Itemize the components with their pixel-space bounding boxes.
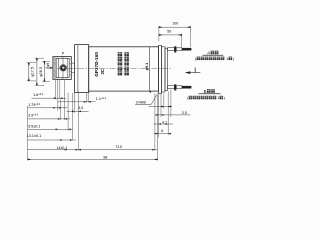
connector pin block	[53, 64, 55, 67]
svg-text:1.6+0.1: 1.6+0.1	[33, 92, 44, 97]
connector block vertical center line	[62, 57, 64, 80]
left flange inner line	[77, 45, 79, 93]
2xM8 leader underline	[135, 103, 151, 105]
svg-text:50: 50	[167, 29, 171, 33]
right section C	[165, 48, 168, 90]
top stud thread	[182, 48, 192, 51]
svg-text:2×M8: 2×M8	[136, 99, 147, 104]
svg-text:3.9+0.1: 3.9+0.1	[28, 113, 39, 118]
svg-text:): )	[233, 56, 235, 61]
centerline	[47, 67, 172, 69]
dim 30 line	[159, 26, 191, 28]
bottom stud shaft2	[176, 86, 182, 89]
right section B	[161, 47, 165, 92]
stem between block and flange	[71, 62, 74, 64]
left dia dim line 1	[28, 63, 30, 81]
port circle ring	[61, 66, 65, 70]
top stud shaft	[168, 48, 175, 51]
svg-text:3.5: 3.5	[182, 111, 187, 115]
bottom stud shaft	[168, 86, 175, 89]
port circle outer	[60, 65, 67, 72]
svg-text:98: 98	[103, 156, 107, 160]
2xM8 leader diagonal	[151, 95, 157, 105]
A coil paren note	[195, 56, 235, 61]
svg-text:φ9.1: φ9.1	[145, 63, 149, 71]
svg-text:100: 100	[172, 22, 178, 26]
top stud shaft2	[176, 48, 182, 51]
right chain dim row1	[149, 106, 173, 108]
A coil label	[207, 50, 218, 55]
bottom stud thread	[182, 86, 192, 89]
svg-text:3.5: 3.5	[78, 106, 83, 110]
svg-text:φ9: φ9	[46, 63, 50, 67]
right chain dim row2 3.5	[155, 114, 190, 116]
svg-text:GP37D-160: GP37D-160	[94, 52, 99, 77]
body inner right line	[148, 47, 150, 91]
direction arrow tick	[194, 68, 196, 73]
connector block left strip	[54, 57, 56, 80]
connector block inner	[56, 58, 69, 77]
svg-text:φ26.5: φ26.5	[39, 67, 43, 77]
svg-text:73.5: 73.5	[115, 145, 122, 149]
left dia dim line 3	[43, 61, 45, 81]
svg-text:P: P	[62, 52, 65, 56]
svg-text:9.5±0.1: 9.5±0.1	[28, 124, 40, 128]
bottom stud washer	[174, 84, 176, 90]
connector block outer	[53, 57, 71, 80]
svg-text:4.7: 4.7	[162, 121, 167, 125]
connector block left strip shading	[53, 57, 56, 79]
pointer arrow to block left face	[45, 67, 53, 69]
small dim 1.6 line	[32, 97, 67, 99]
right chain dim row3 4.7	[154, 123, 174, 125]
A coil underline	[203, 54, 224, 56]
left flange	[75, 45, 89, 93]
B coil paren note	[187, 95, 225, 100]
svg-text:B: B	[204, 89, 207, 94]
direction arrow symbol	[186, 72, 200, 74]
top stud washer	[174, 46, 176, 52]
dim 20 line	[159, 34, 182, 36]
body chinese column 1	[118, 52, 123, 75]
connector block inner vertical lines	[57, 58, 59, 77]
svg-text:φ17.5: φ17.5	[31, 67, 35, 77]
svg-text:A: A	[207, 50, 210, 55]
svg-text:13.1±0.1: 13.1±0.1	[27, 134, 41, 138]
right chain ext lines	[157, 94, 159, 138]
dim 30 ext lines	[158, 26, 160, 41]
main body	[89, 47, 159, 91]
svg-text:1.1+0.1: 1.1+0.1	[96, 96, 107, 101]
right chain dim row4 8	[154, 133, 172, 135]
connector block hatch	[53, 57, 71, 80]
small dim 1.1 line	[58, 101, 96, 103]
svg-text:8: 8	[161, 129, 163, 133]
right flange A	[159, 46, 162, 94]
B coil label	[204, 89, 215, 94]
B coil underline	[199, 93, 221, 95]
left chain ext lines	[28, 80, 158, 160]
svg-text:): )	[224, 95, 226, 100]
left dia dim line 2	[36, 58, 38, 85]
svg-text:3C: 3C	[100, 69, 105, 74]
svg-text:1.75+0.1: 1.75+0.1	[28, 102, 41, 107]
body chinese column 2	[124, 52, 128, 75]
